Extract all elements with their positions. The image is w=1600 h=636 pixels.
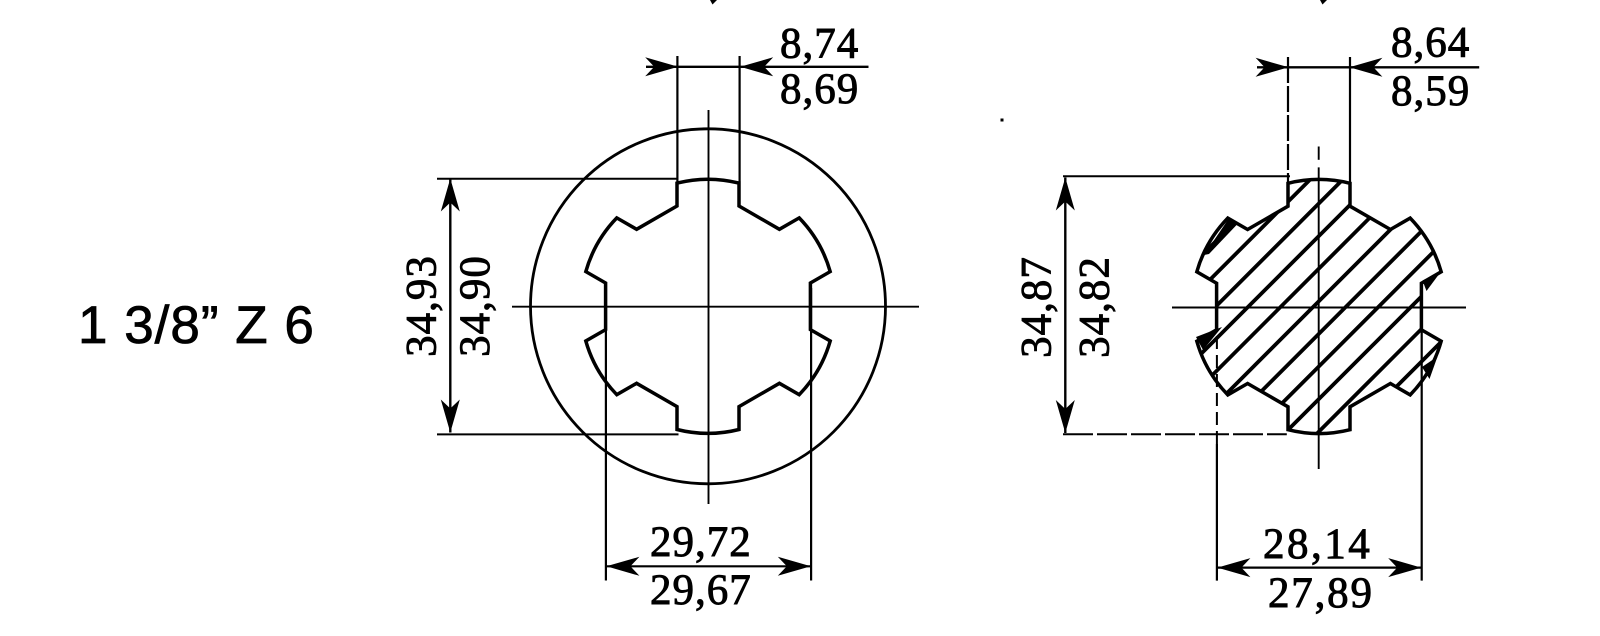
svg-text:34,90: 34,90 xyxy=(452,255,499,357)
svg-text:29,72: 29,72 xyxy=(650,519,752,566)
left dim 34,93/34,90: vertical dimension line xyxy=(449,179,451,433)
right view: relief ear at 2 oclock tooth xyxy=(1423,272,1442,292)
left dim 8,74/8,69: arrow right-pointing xyxy=(645,57,678,76)
svg-text:34,93: 34,93 xyxy=(399,255,446,357)
svg-text:29,67: 29,67 xyxy=(650,567,752,614)
right view: vertical centerline lower segment xyxy=(1318,167,1320,469)
cropped comma artifact top right xyxy=(1320,0,1327,5)
right dim 34,87/34,82: arrow up xyxy=(1056,178,1075,211)
scan speck xyxy=(1001,119,1004,122)
right view: vertical centerline xyxy=(1318,147,1320,160)
right dim 28,14/27,89: dimension line xyxy=(1217,566,1421,568)
right dim 34,87/34,82: arrow down xyxy=(1056,400,1075,433)
right dim 28,14/27,89: extension line left xyxy=(1216,336,1218,444)
left view: outer circle of hub xyxy=(531,129,886,484)
right dim 34,87/34,82: vertical dimension line xyxy=(1064,178,1066,434)
svg-text:28,14: 28,14 xyxy=(1263,521,1372,568)
right dim 28,14/27,89: arrow right-pointing xyxy=(1388,558,1421,577)
right dim 28,14/27,89: extension line left lower solid part xyxy=(1216,444,1218,581)
left dim 34,93/34,90: arrow up xyxy=(441,179,460,212)
left dim 34,93/34,90: arrow down xyxy=(441,400,460,433)
left dim 29,72/29,67: arrow right-pointing xyxy=(778,557,811,576)
right dim 34,87/34,82: top extension line xyxy=(1063,175,1290,177)
svg-text:8,69: 8,69 xyxy=(780,66,859,113)
svg-text:27,89: 27,89 xyxy=(1268,570,1374,617)
svg-text:1 3/8” Z 6: 1 3/8” Z 6 xyxy=(78,296,315,355)
left dim 8,74/8,69: arrow left-pointing xyxy=(740,57,773,76)
left dim 8,74/8,69: dimension line xyxy=(646,66,869,68)
svg-text:8,64: 8,64 xyxy=(1391,20,1470,67)
left dim 8,74/8,69: extension line right xyxy=(738,56,740,182)
right view: relief ear at 4 oclock tooth xyxy=(1422,357,1438,380)
left dim 29,72/29,67: extension line right xyxy=(810,288,812,581)
left view: vertical centerline xyxy=(708,110,710,504)
left dim 29,72/29,67: dimension line xyxy=(606,565,810,567)
right dim 8,64/8,59: extension line left xyxy=(1287,57,1289,182)
left dim 34,93/34,90: bottom extension line xyxy=(437,433,679,435)
right view: relief ear at 8 oclock tooth xyxy=(1196,327,1222,350)
right dim 8,64/8,59: extension line right xyxy=(1349,57,1351,182)
right view: section hatching 45deg xyxy=(948,137,1600,477)
left dim 29,72/29,67: extension line left xyxy=(605,290,607,581)
left dim 34,93/34,90: top extension line xyxy=(437,178,678,180)
left view: horizontal centerline xyxy=(512,306,919,308)
right view: horizontal centerline xyxy=(1172,307,1466,309)
svg-text:34,87: 34,87 xyxy=(1014,256,1061,358)
cropped comma artifact top left xyxy=(710,0,717,5)
left view: splined bore profile (6 grooves) xyxy=(586,179,830,433)
svg-text:8,74: 8,74 xyxy=(780,21,859,68)
right dim 8,64/8,59: dimension line xyxy=(1257,66,1479,68)
right dim 34,87/34,82: bottom extension line xyxy=(1063,433,1287,435)
right dim 8,64/8,59: arrow left-pointing xyxy=(1349,58,1382,77)
right dim 8,64/8,59: arrow right-pointing xyxy=(1256,58,1289,77)
right dim 28,14/27,89: arrow left-pointing xyxy=(1217,558,1250,577)
svg-text:8,59: 8,59 xyxy=(1391,68,1470,115)
svg-text:34,82: 34,82 xyxy=(1072,256,1119,358)
left dim 8,74/8,69: extension line left xyxy=(676,56,678,182)
left dim 29,72/29,67: arrow left-pointing xyxy=(606,557,639,576)
right dim 28,14/27,89: extension line right xyxy=(1421,290,1423,581)
right view: relief ear at 10 oclock tooth xyxy=(1204,218,1238,256)
